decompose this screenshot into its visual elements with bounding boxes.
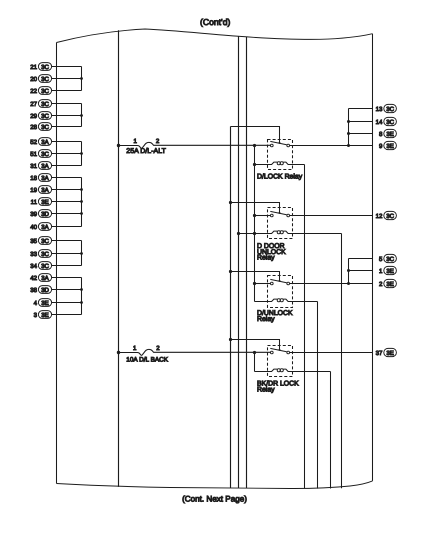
svg-text:3D: 3D: [41, 211, 49, 218]
svg-text:3C: 3C: [41, 64, 49, 71]
svg-text:22: 22: [30, 88, 37, 95]
svg-text:Relay: Relay: [257, 316, 275, 323]
svg-text:51: 51: [30, 151, 37, 158]
svg-text:12: 12: [376, 213, 383, 220]
svg-text:14: 14: [376, 119, 383, 126]
svg-text:3C: 3C: [41, 76, 49, 83]
svg-text:3C: 3C: [41, 101, 49, 108]
svg-text:2: 2: [156, 138, 160, 145]
svg-text:3C: 3C: [41, 263, 49, 270]
svg-text:3C: 3C: [386, 119, 394, 126]
svg-text:D/LOCK Relay: D/LOCK Relay: [257, 174, 303, 181]
svg-text:(Cont'd): (Cont'd): [200, 17, 230, 27]
svg-text:38: 38: [30, 287, 37, 294]
svg-text:3E: 3E: [386, 281, 393, 288]
svg-text:3C: 3C: [41, 113, 49, 120]
svg-text:18: 18: [30, 175, 37, 182]
svg-text:3E: 3E: [41, 300, 48, 307]
svg-text:20: 20: [30, 76, 37, 83]
svg-text:10A D/L BACK: 10A D/L BACK: [126, 357, 168, 364]
svg-text:29: 29: [30, 113, 37, 120]
svg-text:2: 2: [379, 281, 383, 288]
svg-text:39: 39: [30, 211, 37, 218]
svg-text:21: 21: [30, 64, 37, 71]
svg-text:3E: 3E: [41, 199, 48, 206]
svg-text:3E: 3E: [386, 350, 393, 357]
svg-text:3A: 3A: [41, 187, 49, 194]
svg-text:3C: 3C: [386, 106, 394, 113]
svg-text:37: 37: [376, 350, 383, 357]
svg-text:13: 13: [376, 106, 383, 113]
svg-text:1: 1: [133, 345, 137, 352]
svg-text:3A: 3A: [41, 175, 49, 182]
svg-text:3C: 3C: [41, 88, 49, 95]
svg-text:3A: 3A: [41, 163, 49, 170]
svg-text:3A: 3A: [41, 224, 49, 231]
svg-text:40: 40: [30, 224, 37, 231]
svg-text:34: 34: [30, 263, 37, 270]
svg-text:5: 5: [379, 256, 383, 263]
svg-text:28: 28: [30, 124, 37, 131]
svg-text:1: 1: [379, 268, 383, 275]
svg-text:33: 33: [30, 251, 37, 258]
svg-text:8: 8: [379, 131, 383, 138]
svg-text:25A D/L-ALT: 25A D/L-ALT: [126, 147, 166, 155]
svg-text:3E: 3E: [386, 268, 393, 275]
svg-text:3C: 3C: [386, 256, 394, 263]
svg-text:3: 3: [34, 312, 38, 319]
svg-text:3E: 3E: [41, 312, 48, 319]
svg-text:27: 27: [30, 101, 37, 108]
svg-text:9: 9: [379, 143, 383, 150]
svg-text:52: 52: [30, 139, 37, 146]
svg-text:19: 19: [30, 187, 37, 194]
svg-text:3C: 3C: [41, 251, 49, 258]
svg-text:3A: 3A: [41, 275, 49, 282]
svg-text:3C: 3C: [41, 238, 49, 245]
svg-text:35: 35: [30, 238, 37, 245]
svg-text:3C: 3C: [41, 151, 49, 158]
svg-text:(Cont. Next Page): (Cont. Next Page): [182, 494, 247, 503]
svg-text:2: 2: [156, 345, 160, 352]
svg-text:42: 42: [30, 275, 37, 282]
svg-text:1: 1: [134, 138, 138, 145]
svg-text:3C: 3C: [386, 213, 394, 220]
svg-text:3E: 3E: [386, 131, 393, 138]
svg-text:31: 31: [30, 163, 37, 170]
svg-text:3C: 3C: [41, 124, 49, 131]
svg-text:11: 11: [31, 199, 38, 206]
svg-text:4: 4: [34, 300, 38, 307]
svg-text:Relay: Relay: [257, 386, 275, 393]
svg-text:Relay: Relay: [257, 255, 275, 262]
svg-text:3E: 3E: [386, 143, 393, 150]
svg-text:3D: 3D: [41, 287, 49, 294]
svg-text:3A: 3A: [41, 139, 49, 146]
